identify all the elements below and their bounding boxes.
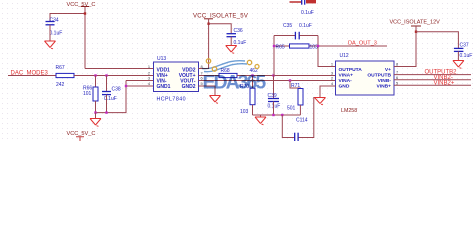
node junction C38 top [105,74,107,76]
svg-text:U13: U13 [157,56,166,62]
wire R70 top lead [252,76,254,89]
wire C37 bottom lead [457,51,459,60]
wire feedback right vertical to OUTPUTA [318,36,336,67]
ground (under C34) [45,41,56,49]
wire branch to C36 [209,24,232,34]
svg-text:242: 242 [56,82,65,88]
power symbol VCC_5V_C (top left) [81,6,89,8]
svg-text:8: 8 [396,61,398,66]
svg-text:VCC_5V_C: VCC_5V_C [67,131,96,137]
svg-text:0.1uF: 0.1uF [460,53,473,59]
svg-text:0.1uF: 0.1uF [234,40,247,46]
svg-text:DA_OUT_3: DA_OUT_3 [348,41,377,47]
op-isolator U13 [154,62,199,92]
svg-text:C114: C114 [296,118,308,124]
wire OUTPUTB out [394,74,471,76]
svg-text:VINA+: VINA+ [339,73,354,79]
svg-text:R71: R71 [291,83,300,89]
wire feedback loop top [274,35,318,37]
svg-text:C36: C36 [234,28,243,34]
wire C114 loop [282,98,320,138]
wire C34 bottom lead [49,25,51,41]
svg-text:7: 7 [396,70,398,75]
node junction rail at C38 [105,111,107,113]
svg-text:501: 501 [287,106,296,112]
wire feedback loop bottom / DA_OUT row [274,45,387,47]
node junction R66 top [94,74,96,76]
op-amp U12 [336,61,395,95]
capacitor C114 [295,133,298,141]
svg-text:0.1uF: 0.1uF [301,10,314,16]
svg-text:1: 1 [331,61,333,66]
svg-text:101: 101 [83,91,92,97]
svg-text:2: 2 [148,70,150,75]
svg-text:VCC_ISOLATE_12V: VCC_ISOLATE_12V [390,19,441,25]
wire C38 top lead [106,76,108,92]
svg-text:C38: C38 [112,87,121,93]
wire R67 to U13 pin2 [74,75,154,77]
resistor R65 [290,44,310,48]
wire branch to C37 [416,32,458,49]
svg-text:OUTPUTB: OUTPUTB [367,73,391,79]
node junction rail at R66 [94,111,96,113]
svg-text:VINB-: VINB- [378,78,392,84]
svg-text:R65: R65 [276,45,285,51]
svg-text:VINB2+: VINB2+ [434,81,455,87]
node junction at rail/C34 branch [84,12,86,14]
node junction C36 branch [207,23,209,25]
ground (U13 GND2) [210,96,221,104]
capacitor C37 [454,48,464,51]
wire bottom rail R70/C39/R71 [253,102,301,116]
svg-text:5: 5 [396,80,398,85]
resistor R66 [93,87,98,101]
node junction C39 bottom [272,114,274,116]
wire branch to C34 [50,14,85,22]
wire R68 to U12 VINA+ [237,75,336,77]
wire VOUT- to U12 VINA- [199,80,336,82]
svg-text:U12: U12 [340,53,349,59]
node junction DA_OUT tap [317,45,319,47]
svg-text:V+: V+ [385,67,391,73]
wire GND2 to ground [199,86,216,96]
wire V+ to VCC_ISOLATE_12V [394,26,416,67]
wire ground stub mid rail [260,115,262,117]
ground (mid rail) [255,117,266,125]
svg-text:C35: C35 [283,23,292,29]
wire VDD2 to VCC_ISOLATE_5V [199,19,209,69]
svg-text:VINB+: VINB+ [376,83,391,89]
svg-text:GND1: GND1 [157,84,171,90]
svg-text:LM258: LM258 [341,108,357,114]
svg-text:VCC_5V_C: VCC_5V_C [67,2,96,8]
svg-text:VCC_ISOLATE_5V: VCC_ISOLATE_5V [193,13,248,19]
wire VINB- out [394,79,471,81]
svg-text:2: 2 [331,76,333,81]
ground (U12 GND) [315,98,326,105]
node junction loop left bottom corner [273,45,275,47]
capacitor (top, cropped) [290,1,302,3]
svg-text:0.1uF: 0.1uF [50,31,63,37]
svg-text:GND2: GND2 [182,84,196,90]
wire C36 bottom lead [230,37,232,46]
resistor R68 [219,73,237,77]
wire VINB+ out [394,84,471,86]
svg-text:0.1uF: 0.1uF [104,96,117,102]
resistor R70 [250,88,255,105]
node junction R70 top [251,74,253,76]
svg-text:0.1uF: 0.1uF [299,23,312,29]
svg-text:C37: C37 [460,42,469,48]
wire ground stub [95,113,97,119]
wire R66/C38 bottoms to rail [96,95,107,113]
svg-text:103: 103 [240,109,249,115]
capacitor C38 [102,92,111,95]
wire U12 GND to ground [320,86,336,98]
ground (under C36) [226,46,237,54]
svg-text:3: 3 [331,70,333,75]
svg-text:OUTPUTA: OUTPUTA [339,67,363,73]
node junction C37 branch [415,31,417,33]
wire VOUT+ to R68 [199,75,220,77]
capacitor C35 plates [295,32,299,40]
node junction C39/feedback top [272,74,274,76]
node junction C114 left [281,114,283,116]
wire C39 top lead [273,76,275,99]
svg-text:C34: C34 [50,18,59,24]
wire R66 top lead [95,76,97,88]
wire DAC_MODE1 to R67 [8,75,56,77]
resistor R71 [298,89,303,106]
node junction R71 top [289,79,291,81]
watermark logo swirl [202,61,247,72]
svg-text:HCPL7840: HCPL7840 [157,96,187,102]
svg-text:GND: GND [339,83,350,89]
wire R71 top lead [290,81,300,89]
capacitor C34 [46,22,55,25]
svg-text:C39: C39 [268,93,277,99]
wire feedback left vertical [273,36,275,76]
wire VCC_5V_C vertical rail [85,7,154,69]
wire bottom rail to VIN-/GND1 riser [96,81,154,113]
svg-text:103: 103 [310,45,319,51]
svg-text:R67: R67 [56,65,65,71]
svg-text:3: 3 [148,76,150,81]
resistor R67 [56,73,74,77]
node junction GND1 riser [125,85,127,87]
ground (filter, bottom left) [90,119,101,127]
svg-text:1: 1 [148,64,150,69]
svg-text:6: 6 [396,75,398,80]
ground (under C37) [453,61,464,69]
capacitor C36 [227,34,237,37]
svg-text:VINA-: VINA- [339,78,353,84]
capacitor C39 [268,99,279,102]
svg-text:EDA365: EDA365 [203,72,267,94]
